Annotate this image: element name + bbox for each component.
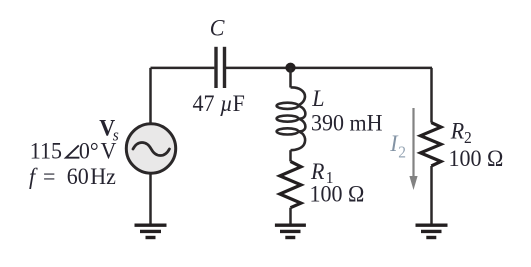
wire node to inductor xyxy=(289,68,292,88)
svg-text:V: V xyxy=(101,138,117,164)
wire R2 to ground xyxy=(430,166,433,224)
svg-text:115: 115 xyxy=(30,138,62,164)
svg-text:2: 2 xyxy=(398,144,406,162)
capacitor C plates xyxy=(216,47,225,88)
wire top-left horizontal (source to capacitor) xyxy=(151,67,215,70)
inductor L coil xyxy=(277,87,306,150)
svg-text:C: C xyxy=(210,15,225,41)
resistor R1 zigzag xyxy=(280,161,301,207)
ground symbol (middle) xyxy=(275,225,306,237)
sine wave inside source xyxy=(133,142,169,155)
wire inductor to R1 xyxy=(289,150,292,161)
wire R1 to ground xyxy=(289,208,292,224)
svg-text:0°: 0° xyxy=(79,138,99,164)
svg-text:Hz: Hz xyxy=(90,163,116,189)
wire top-right horizontal (capacitor to R2 branch) xyxy=(226,67,432,70)
svg-text:L: L xyxy=(311,85,324,111)
resistor R2 zigzag xyxy=(421,123,442,166)
ground symbol (source) xyxy=(135,225,167,237)
wire right branch vertical (top to R2) xyxy=(430,68,433,123)
svg-text:60: 60 xyxy=(67,163,89,189)
ground symbol (right) xyxy=(416,225,448,237)
svg-text:2: 2 xyxy=(464,129,472,147)
node junction dot xyxy=(285,63,295,73)
svg-text:R: R xyxy=(450,118,464,144)
svg-text:100 Ω: 100 Ω xyxy=(449,145,504,171)
svg-text:=: = xyxy=(43,163,55,189)
svg-text:390 mH: 390 mH xyxy=(311,110,382,136)
svg-text:100 Ω: 100 Ω xyxy=(310,181,365,207)
voltage source Vs circle xyxy=(126,124,175,173)
svg-text:47 µF: 47 µF xyxy=(193,90,245,116)
angle symbol xyxy=(66,145,79,157)
wire left branch vertical (top wire to source) xyxy=(149,68,152,124)
current arrow I2 xyxy=(409,108,417,190)
svg-text:f: f xyxy=(29,163,38,189)
wire source to ground xyxy=(149,173,152,224)
